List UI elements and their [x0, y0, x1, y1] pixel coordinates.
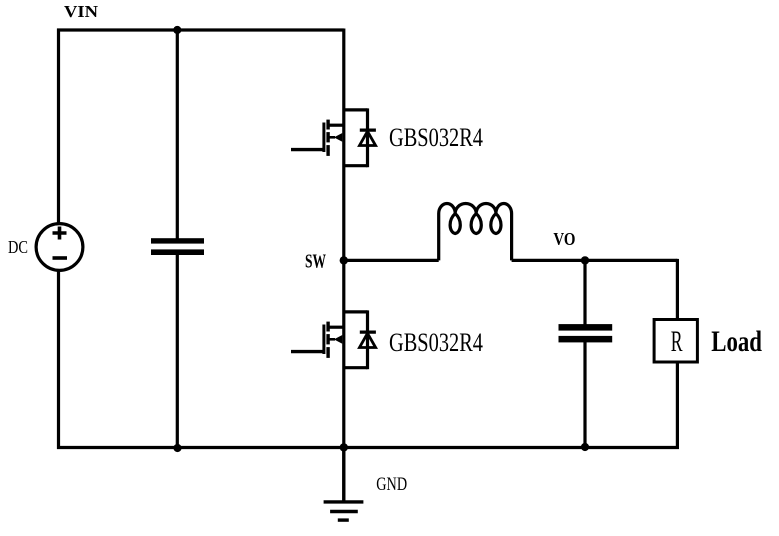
inductor L1 — [439, 204, 512, 261]
channel segment middle — [326, 132, 329, 142]
transistor Q2 (low-side MOSFET) — [291, 310, 483, 369]
svg-text:VO: VO — [553, 229, 575, 249]
bottom plate — [151, 249, 204, 255]
body diode branch wire — [366, 310, 369, 369]
ground bar 1 — [324, 500, 364, 503]
body diode branch wire — [366, 108, 369, 167]
wire: SW node to inductor — [344, 259, 439, 262]
body diode cathode bar — [360, 129, 376, 132]
junction dot at SW node — [340, 256, 348, 264]
body arrow — [334, 133, 342, 142]
svg-text:DC: DC — [8, 237, 28, 257]
junction dot at Cout/ground rail — [581, 443, 589, 451]
junction dot at main bus/ground rail — [340, 443, 348, 451]
gate bar — [322, 123, 325, 153]
ground lead — [342, 448, 345, 502]
wire: left rail upper (DC source top) — [57, 29, 60, 225]
ground bar 3 — [338, 518, 349, 521]
wire: output cap bottom lead — [583, 341, 586, 449]
wire: load bottom lead — [676, 364, 679, 450]
svg-text:Load: Load — [711, 326, 762, 358]
svg-text:VIN: VIN — [64, 2, 99, 21]
wire: main vertical bus (VIN - Q1 - SW - Q2 - GND) — [342, 29, 345, 502]
wire: left rail lower (DC source bottom to ground rail) — [57, 271, 60, 450]
body arrow — [334, 335, 342, 344]
body diode triangle — [360, 333, 376, 347]
capacitor Cout — [559, 324, 613, 342]
plus sign — [53, 227, 67, 240]
body diode top connection — [344, 108, 368, 111]
gate lead — [291, 148, 324, 151]
channel segment bottom — [326, 145, 329, 156]
top plate — [559, 324, 613, 331]
channel segment top — [326, 120, 329, 130]
wire: bottom ground rail — [57, 446, 679, 449]
junction dot at VIN/Cin — [173, 26, 181, 34]
svg-text:R: R — [671, 326, 683, 358]
capacitor Cin — [151, 238, 204, 255]
transistor Q1 (high-side MOSFET) — [291, 108, 483, 167]
body diode cathode bar — [360, 331, 376, 334]
body diode bottom connection — [344, 366, 368, 369]
wire: output cap top lead — [583, 260, 586, 325]
body diode triangle — [360, 131, 376, 145]
resistor box — [654, 320, 697, 363]
wire: input cap top lead — [176, 30, 179, 239]
channel segment top — [326, 322, 329, 332]
ground bar 2 — [330, 510, 358, 513]
top plate — [151, 238, 204, 243]
resistor R (load) — [654, 320, 697, 363]
channel segment bottom — [326, 347, 329, 358]
body diode top connection — [344, 310, 368, 313]
wire: inductor to load corner — [512, 259, 678, 262]
bottom plate — [559, 336, 613, 343]
gate lead — [291, 350, 324, 353]
wire: input cap bottom lead — [176, 255, 179, 449]
svg-text:GBS032R4: GBS032R4 — [389, 123, 483, 152]
svg-text:GBS032R4: GBS032R4 — [389, 328, 483, 357]
ground symbol — [324, 448, 407, 521]
svg-text:GND: GND — [376, 475, 407, 495]
DC source V1 — [8, 224, 83, 271]
body line — [328, 136, 335, 139]
wire: top rail from DC+ to high-side drain — [57, 28, 344, 31]
drain lead — [328, 124, 344, 127]
source circle — [36, 224, 83, 271]
svg-text:SW: SW — [305, 251, 326, 273]
drain lead — [328, 326, 344, 329]
junction dot at Cin/ground rail — [173, 444, 181, 452]
wire: load right drop — [676, 259, 679, 319]
channel segment middle — [326, 334, 329, 344]
body diode bottom connection — [344, 164, 368, 167]
junction dot at VO node — [581, 256, 589, 264]
body line — [328, 338, 335, 341]
gate bar — [322, 325, 325, 355]
minus sign — [53, 256, 68, 260]
